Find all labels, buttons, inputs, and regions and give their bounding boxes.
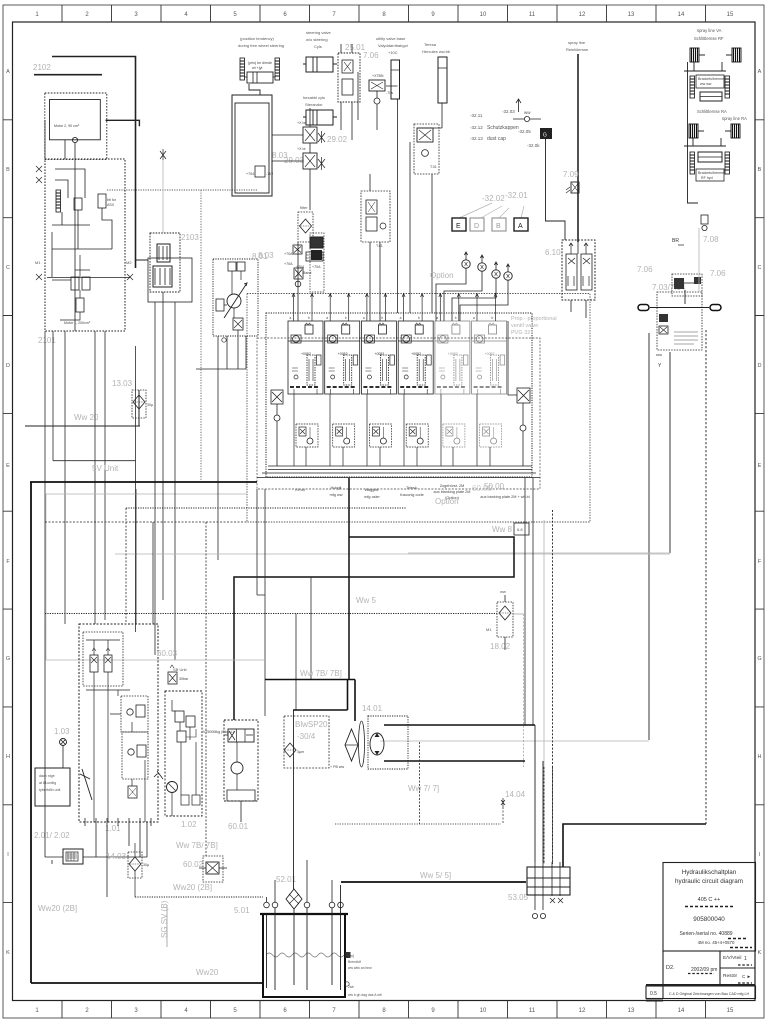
svg-text:1: 1 [744, 956, 747, 962]
svg-text:wt +|yt: wt +|yt [252, 66, 262, 70]
svg-text:Serien-/serial no. 40889: Serien-/serial no. 40889 [679, 931, 732, 937]
svg-text:6.8: 6.8 [517, 527, 523, 532]
hand pump circle [167, 782, 178, 793]
svg-text:1.03: 1.03 [54, 727, 70, 736]
svg-text:Schlittlernse RF: Schlittlernse RF [694, 36, 724, 41]
svg-text:H: H [6, 754, 10, 760]
text hexabbl [303, 95, 325, 107]
svg-text:60.03: 60.03 [157, 649, 178, 658]
riser arrowheads [292, 294, 497, 298]
svg-text:12: 12 [579, 1008, 586, 1014]
hatched bar R [275, 58, 280, 80]
note text [238, 36, 284, 48]
svg-text:5V Unit: 5V Unit [92, 464, 119, 473]
oil level wave [266, 953, 344, 957]
svg-text:Ww20: Ww20 [196, 968, 219, 977]
svg-text:ww: ww [500, 589, 506, 594]
svg-text:E/V/Vteil: E/V/Vteil [723, 955, 741, 961]
wire [45, 120, 136, 632]
solenoid 32.05 [540, 128, 552, 139]
hbar VA left [690, 76, 695, 98]
motor block [157, 244, 170, 262]
svg-text:M2: M2 [126, 260, 132, 265]
pilot valve 2 [104, 655, 112, 672]
svg-text:3µm: 3µm [297, 750, 304, 754]
hbar VA right [725, 76, 730, 98]
svg-text:Ww 7/ 7]: Ww 7/ 7] [408, 784, 439, 793]
solid frame 2103 [148, 258, 192, 302]
svg-text:Valyddarrlbabgct: Valyddarrlbabgct [378, 43, 409, 48]
svg-text:53.05: 53.05 [508, 893, 529, 902]
svg-text:(pris) be dimde: (pris) be dimde [248, 61, 272, 65]
cooler box [63, 849, 83, 864]
valve section 1 [288, 321, 323, 394]
pump circle 8.03 [227, 294, 241, 308]
dashed box A [414, 124, 439, 174]
svg-text:Hydraulikschaltplan: Hydraulikschaltplan [682, 869, 737, 876]
svg-text:Schlittlernse RA: Schlittlernse RA [697, 109, 727, 114]
dashed box 1.01 [79, 624, 158, 822]
breather needle [516, 99, 521, 112]
svg-text:Cyls: Cyls [314, 44, 322, 49]
svg-text:-32.0k: -32.0k [527, 143, 540, 148]
svg-text:11: 11 [529, 12, 536, 18]
svg-text:Waggldr.: Waggldr. [365, 488, 380, 492]
svg-text:btl for: btl for [107, 198, 117, 202]
svg-text:4M no. 45+4+0570: 4M no. 45+4+0570 [698, 940, 735, 945]
svg-text:7.06: 7.06 [637, 265, 653, 274]
svg-text:M1: M1 [35, 260, 41, 265]
svg-text:utility valve base: utility valve base [376, 36, 406, 41]
bus drop wires [136, 489, 311, 716]
valve blob box [672, 274, 702, 296]
nozzle VA right [726, 48, 741, 62]
svg-text:-32.03: -32.03 [502, 109, 515, 114]
drop from 32.05 [546, 139, 566, 240]
dashed enclosure 2102 [45, 93, 107, 159]
suction pipe to strainer [293, 710, 295, 889]
hbar RA right [725, 152, 730, 174]
manifold block [310, 237, 323, 248]
svg-text:10: 10 [480, 1008, 487, 1014]
dashed box 6.10 [562, 240, 595, 300]
pressure valve box A [417, 128, 433, 142]
svg-text:C: C [6, 265, 10, 271]
svg-text:spray line VA: spray line VA [697, 28, 722, 33]
svg-text:H: H [758, 754, 762, 760]
svg-text:29.03: 29.03 [284, 156, 305, 165]
svg-text:-32.12: -32.12 [470, 125, 483, 130]
right drop wires [525, 478, 533, 725]
port mark M2 [127, 274, 133, 280]
section risers [294, 293, 496, 321]
accumulator tall [391, 60, 400, 99]
dashed box 60.02 [203, 856, 223, 882]
striped brake bar [56, 190, 61, 212]
strainer diamond [284, 743, 296, 757]
svg-text:Prop.- proportional: Prop.- proportional [511, 316, 557, 322]
suction line [25, 390, 140, 426]
svg-text:Option: Option [430, 271, 454, 280]
nozzle RA right [725, 124, 740, 138]
svg-text:+10C: +10C [388, 50, 398, 55]
svg-text:7.06: 7.06 [710, 269, 726, 278]
svg-text:30µ: 30µ [147, 403, 153, 407]
svg-text:hydraulic circuit diagram: hydraulic circuit diagram [675, 878, 743, 885]
svg-text:Ww 5/ 5]: Ww 5/ 5] [420, 871, 451, 880]
port marks M1 [36, 166, 42, 280]
svg-text:M1: M1 [486, 627, 492, 632]
steering drops [341, 44, 358, 140]
svg-text:+X br: +X br [297, 121, 306, 125]
hbar RA left [690, 152, 695, 174]
svg-text:7.08: 7.08 [703, 235, 719, 244]
svg-text:-32.11: -32.11 [470, 113, 483, 118]
svg-text:E: E [456, 223, 461, 230]
plate E [452, 218, 528, 231]
manifold lines 1.01 [86, 640, 130, 690]
hatched bar L [240, 58, 245, 80]
svg-text:ASX: ASX [107, 203, 115, 207]
filter diamond [300, 219, 312, 233]
svg-text:ww wbk an bnw: ww wbk an bnw [348, 966, 372, 970]
sump 60.01 [227, 790, 255, 801]
joystick block A [121, 696, 148, 732]
svg-text:at ALurdtig: at ALurdtig [39, 781, 56, 785]
svg-text:b: b [418, 316, 420, 320]
frame 60.01 [224, 720, 258, 801]
svg-text:Motor 1, 200cm³: Motor 1, 200cm³ [64, 321, 91, 325]
svg-text:b: b [345, 316, 347, 320]
svg-text:12: 12 [579, 12, 586, 18]
pilot dashed drop [419, 742, 421, 824]
links 2101 [52, 169, 112, 249]
svg-text:+70A: +70A [312, 265, 321, 269]
valve 60.02 [206, 862, 219, 874]
level switch note [348, 954, 382, 997]
svg-text:BlwSP20: BlwSP20 [295, 720, 328, 729]
svg-text:Motor 2, 90 cm³: Motor 2, 90 cm³ [54, 124, 80, 128]
svg-text:1.01: 1.01 [105, 824, 121, 833]
svg-text:D: D [474, 223, 479, 230]
cylinder RA [698, 152, 722, 162]
suction thick lines [265, 680, 355, 722]
valve section 6 [472, 321, 507, 394]
star marks [318, 131, 325, 170]
motor-pump box 2102 [50, 100, 101, 143]
svg-text:7.09: 7.09 [563, 170, 579, 179]
svg-text:BR: BR [672, 238, 679, 244]
steering cylinder [247, 72, 273, 83]
valve v1 [303, 127, 317, 143]
svg-text:Schutzkappen: Schutzkappen [487, 125, 519, 131]
svg-text:Brackets/brenne: Brackets/brenne [698, 171, 724, 175]
svg-text:15: 15 [727, 12, 734, 18]
section drop lines [294, 394, 490, 466]
gray cooler return [46, 659, 265, 661]
svg-text:11: 11 [529, 1008, 536, 1014]
gauge 2 [478, 255, 486, 271]
dashed box 1.02 [165, 691, 202, 816]
dotted box 8.03 [213, 259, 258, 336]
axle line with caps [638, 305, 649, 311]
pilot sub-block 1 [296, 424, 318, 447]
manifold line RA [684, 138, 726, 146]
small relief [128, 786, 137, 798]
pilot dotted horiz [335, 823, 501, 825]
manifold columns [535, 862, 560, 910]
svg-text:spray line: spray line [568, 40, 586, 45]
accumulator cylinder [438, 57, 447, 103]
motor circle 60.01 [231, 762, 243, 774]
coupling ellipse [359, 721, 365, 767]
svg-text:D: D [758, 363, 762, 369]
svg-text:G: G [757, 656, 761, 662]
gray drop [543, 520, 545, 864]
svg-text:14: 14 [678, 12, 685, 18]
drain dotted rail [45, 613, 497, 615]
row dividers side strips [3, 120, 764, 903]
svg-text:D: D [6, 363, 10, 369]
pump diamond [345, 729, 358, 761]
svg-text:+704: +704 [246, 172, 254, 176]
svg-text:ww b gh dag das A wft: ww b gh dag das A wft [348, 993, 382, 997]
bank end plate left [271, 390, 283, 466]
svg-text:tyberfdlln unit: tyberfdlln unit [39, 788, 60, 792]
gray pilot line right [698, 228, 700, 292]
svg-text:A: A [518, 223, 523, 230]
manifold frame [527, 867, 570, 895]
diamond 14.03 [129, 857, 141, 871]
svg-text:60.00: 60.00 [472, 484, 493, 493]
svg-text:dust cap: dust cap [487, 136, 506, 142]
feed thick bottom [384, 760, 525, 762]
gauge feeds [436, 268, 508, 321]
tank feeds [267, 860, 333, 902]
pilot dashed ls [45, 521, 247, 523]
svg-text:+X7BN: +X7BN [372, 74, 384, 78]
dotted box 14.01 [368, 716, 408, 769]
main spray riser [577, 54, 579, 242]
svg-text:a: a [400, 316, 402, 320]
relief valve 2 [581, 254, 592, 290]
svg-text:A: A [6, 69, 10, 75]
valve section 3 [361, 321, 396, 394]
svg-text:0.5: 0.5 [650, 991, 657, 997]
svg-text:G: G [6, 656, 10, 662]
svg-text:Reinlülernse: Reinlülernse [566, 47, 589, 52]
column sources [534, 725, 536, 862]
svg-text:Ww 7B/ 7B]: Ww 7B/ 7B] [300, 669, 342, 678]
svg-text:-32.02: -32.02 [482, 194, 505, 203]
svg-text:+70A: +70A [284, 262, 293, 266]
svg-text:14: 14 [678, 1008, 685, 1014]
svg-text:b: b [455, 316, 457, 320]
valve 7.09 [571, 182, 579, 193]
svg-text:b: b [381, 316, 383, 320]
lower brake box [657, 292, 702, 350]
nozzle RA left [689, 124, 704, 138]
port circles [532, 913, 537, 918]
svg-text:hexabbl cyls: hexabbl cyls [303, 95, 325, 100]
drop lines [377, 86, 398, 313]
svg-text:30µ: 30µ [143, 863, 149, 867]
svg-text:RF hyd: RF hyd [701, 176, 713, 180]
svg-text:Kli od: Kli od [295, 488, 305, 492]
svg-text:-32.01: -32.01 [505, 191, 528, 200]
svg-text:K: K [6, 950, 10, 956]
dashed box 2103 [150, 233, 180, 292]
svg-text:C: C [758, 265, 762, 271]
cylinder B [306, 110, 333, 125]
svg-text:filter: filter [300, 205, 308, 210]
svg-text:7.06: 7.06 [363, 51, 379, 60]
svg-text:Hubglt: Hubglt [331, 486, 343, 490]
dir valve 60.01 [228, 729, 254, 742]
wire [46, 494, 247, 660]
drain dotted line [135, 896, 263, 898]
mark 14.04 [501, 798, 505, 807]
svg-text:PVG 32: PVG 32 [511, 330, 530, 336]
svg-text:b: b [492, 316, 494, 320]
valve c1 [71, 277, 79, 290]
svg-text:Ww 7B/ 7B]: Ww 7B/ 7B] [176, 841, 218, 850]
svg-text:14.04: 14.04 [505, 790, 526, 799]
outer dashed option box [247, 294, 590, 523]
pump block [153, 266, 172, 287]
svg-text:13: 13 [628, 1008, 635, 1014]
feed line thick top [52, 57, 136, 269]
plate B [492, 218, 506, 231]
ls end block [514, 523, 529, 535]
internal drops [94, 690, 145, 822]
breather 1.03 [60, 739, 67, 746]
gauge 1 [462, 252, 470, 268]
svg-text:Ww 8: Ww 8 [492, 525, 513, 534]
svg-text:(Option): (Option) [445, 496, 459, 500]
svg-text:+70A: +70A [284, 252, 293, 256]
svg-text:-32.13: -32.13 [470, 136, 483, 141]
joystick block B [122, 732, 148, 779]
svg-text:Teresa: Teresa [424, 42, 437, 47]
dashed enclosure 2101 [45, 159, 125, 331]
manifold line VA [684, 62, 726, 71]
wire drop from pump [65, 140, 75, 331]
svg-text:C & D Original Zeichnungen von: C & D Original Zeichnungen von Bau CAD m… [669, 992, 750, 996]
valve b2 [98, 194, 106, 208]
svg-text:Ww20 (2B]: Ww20 (2B] [173, 883, 212, 892]
column dividers top strip [62, 5, 706, 22]
solenoid valve 7.06b [369, 80, 385, 91]
svg-text:Zugehörst. 2M: Zugehörst. 2M [440, 484, 464, 488]
column line [272, 108, 310, 210]
svg-text:D2.: D2. [666, 965, 675, 971]
svg-text:fusconlg code: fusconlg code [400, 493, 423, 497]
port crosses [550, 898, 563, 903]
svg-text:60.01: 60.01 [228, 822, 249, 831]
valve bank dotted enclosure [266, 313, 532, 477]
gray returns [380, 740, 649, 742]
svg-text:405 C ++: 405 C ++ [698, 897, 721, 903]
valve section 2 [325, 321, 360, 394]
pilot gray line [162, 160, 164, 233]
suction pipes [267, 885, 341, 990]
svg-text:14.01: 14.01 [362, 704, 383, 713]
svg-text:(position tendency): (position tendency) [240, 36, 274, 41]
svg-text:G: G [543, 133, 547, 139]
feed line thick 2 [34, 74, 102, 76]
plate A [514, 218, 528, 231]
feed drops [370, 128, 442, 321]
valve v2 [303, 153, 317, 169]
relief v [76, 298, 84, 312]
svg-text:T.01: T.01 [376, 244, 383, 248]
junction box VA [696, 75, 724, 88]
branch line M [106, 120, 140, 126]
strainer 52.01 [286, 889, 302, 909]
svg-text:14.03: 14.03 [106, 852, 127, 861]
svg-text:b: b [308, 316, 310, 320]
motor circle 14.01 [370, 733, 384, 755]
svg-text:C ►: C ► [742, 974, 751, 979]
svg-text:steering valve: steering valve [306, 30, 331, 35]
svg-text:18.02: 18.02 [490, 642, 511, 651]
orbitrol housing [232, 95, 272, 196]
svg-text:mfg osler: mfg osler [364, 495, 380, 499]
filter bypass dashed [523, 614, 525, 767]
pilot sub-block 2 [333, 424, 355, 447]
small parts 1.02 [181, 795, 189, 805]
svg-text:2101: 2101 [38, 336, 56, 345]
variable arrow [224, 283, 247, 318]
spray feeder line [688, 62, 699, 203]
svg-text:a: a [326, 316, 328, 320]
dashed box 14.03 [128, 852, 142, 878]
check valves 1.02 [175, 711, 184, 722]
junction box RA [696, 169, 724, 181]
svg-text:during free wheel steering: during free wheel steering [238, 43, 284, 48]
svg-text:ww ww: ww ww [700, 82, 712, 86]
svg-text:13: 13 [628, 12, 635, 18]
feed thick top [384, 724, 535, 726]
pressure main Z [234, 478, 514, 720]
check valve 7.08 [701, 215, 708, 224]
svg-text:+X br: +X br [297, 147, 306, 151]
cylinder VA [700, 92, 722, 101]
svg-text:a: a [436, 316, 438, 320]
svg-text:a: a [290, 316, 292, 320]
dashed box strainer [284, 716, 329, 768]
nozzle VA left [690, 48, 705, 62]
svg-text:aux blanking plate 2M: aux blanking plate 2M [434, 490, 471, 494]
svg-text:-30/4: -30/4 [297, 732, 316, 741]
svg-text:a: a [473, 316, 475, 320]
svg-text:5.01: 5.01 [234, 906, 250, 915]
tank walls [263, 914, 345, 997]
valve pair [228, 262, 236, 271]
svg-text:10: 10 [480, 12, 487, 18]
svg-text:6.10: 6.10 [545, 248, 561, 257]
relief top [168, 672, 177, 684]
svg-text:Sterandor: Sterandor [305, 102, 323, 107]
svg-text:8.01: 8.01 [252, 252, 268, 261]
pilot sub-block 3 [369, 424, 391, 447]
svg-text:-32.05: -32.05 [518, 129, 531, 134]
pilot sub-block 5 [443, 424, 465, 447]
svg-text:Ww 5: Ww 5 [356, 596, 377, 605]
svg-text:mfg ww: mfg ww [330, 493, 343, 497]
valve box 29.01 [338, 53, 360, 102]
